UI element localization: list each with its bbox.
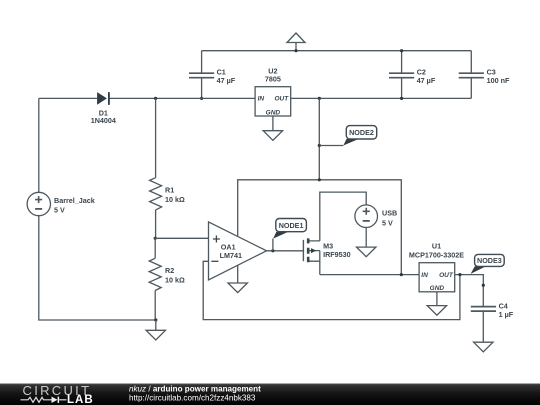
- wire op-amp minus feedback: [203, 261, 460, 319]
- wire U1 OUT to C4: [455, 275, 484, 307]
- node junction power on top rail: [294, 49, 297, 52]
- wire R2 bottom: [154, 291, 156, 321]
- svg-text:OA1: OA1: [221, 242, 236, 251]
- node junction R1 top: [154, 97, 157, 100]
- svg-text:NODE1: NODE1: [279, 221, 304, 230]
- transistor M3 IRF9530: [303, 238, 350, 262]
- node junction op-amp output: [271, 249, 274, 252]
- wire junction to op-amp plus input: [155, 237, 208, 239]
- svg-text:USB: USB: [382, 209, 397, 218]
- capacitor C3: [459, 51, 510, 99]
- node junction U1 in rail: [400, 273, 403, 276]
- svg-text:IN: IN: [258, 96, 265, 103]
- ground bottom left: [146, 320, 165, 340]
- wire main rail left: [39, 97, 255, 99]
- svg-text:5 V: 5 V: [382, 218, 393, 227]
- node junction R1/R2/op-amp: [154, 237, 157, 240]
- svg-text:IN: IN: [421, 272, 428, 279]
- power symbol VCC: [287, 33, 305, 51]
- voltage source USB: [355, 205, 397, 228]
- wire op-amp output to gate: [267, 250, 304, 252]
- svg-text:10 kΩ: 10 kΩ: [165, 276, 185, 285]
- svg-text:GND: GND: [266, 109, 281, 116]
- logo resistor-diode symbol: [21, 397, 67, 403]
- resistor R1: [150, 98, 185, 209]
- ground below USB: [357, 228, 376, 257]
- ground below C4: [474, 342, 493, 352]
- regulator U1 MCP1700-3302E: [409, 242, 464, 293]
- wire left vertical to source: [38, 98, 40, 192]
- resistor R2: [149, 238, 185, 290]
- capacitor C4: [471, 301, 514, 342]
- svg-text:5 V: 5 V: [54, 206, 65, 215]
- node tag NODE3: [471, 254, 505, 274]
- node junction NODE2: [318, 144, 321, 147]
- capacitor C1: [189, 51, 236, 99]
- ground below U1: [427, 292, 446, 315]
- wire U2 OUT rail: [291, 97, 472, 99]
- node tag NODE1: [273, 219, 306, 239]
- svg-text:Barrel_Jack: Barrel_Jack: [54, 196, 95, 205]
- node junction U2 out drop: [318, 97, 321, 100]
- svg-text:1 µF: 1 µF: [499, 310, 514, 319]
- wire U1 IN rail: [320, 274, 419, 276]
- svg-text:LM741: LM741: [220, 251, 242, 260]
- voltage source Barrel_Jack: [27, 192, 95, 215]
- diode D1: [91, 92, 116, 125]
- capacitor C2: [389, 51, 436, 99]
- svg-text:100 nF: 100 nF: [487, 76, 510, 85]
- node junction C2 top: [400, 49, 403, 52]
- wire barrel jack bottom to ground rail: [39, 216, 156, 320]
- wire top rail: [202, 50, 472, 52]
- wire R1 bottom to junction: [155, 210, 157, 238]
- svg-text:47 µF: 47 µF: [417, 76, 436, 85]
- svg-text:1N4004: 1N4004: [91, 116, 116, 125]
- svg-text:GND: GND: [430, 285, 445, 292]
- wire NODE2 stub: [319, 145, 343, 147]
- node junction rect rail / NODE2 drop: [318, 178, 321, 181]
- svg-text:NODE2: NODE2: [349, 128, 374, 137]
- wire NODE2 drop vertical: [318, 98, 320, 179]
- svg-text:OUT: OUT: [274, 96, 289, 103]
- svg-text:http://circuitlab.com/ch2fzz4n: http://circuitlab.com/ch2fzz4nbk383: [129, 393, 256, 402]
- footer bar: [0, 384, 540, 405]
- node junction bottom left ground: [154, 318, 157, 321]
- wire supply rect rail: [238, 180, 402, 275]
- ground below U2: [263, 116, 282, 140]
- node junction C2 bottom: [400, 97, 403, 100]
- svg-text:OUT: OUT: [439, 272, 454, 279]
- svg-text:R2: R2: [165, 266, 174, 275]
- svg-text:U1: U1: [432, 242, 441, 251]
- svg-text:IRF9530: IRF9530: [323, 250, 351, 259]
- svg-text:MCP1700-3302E: MCP1700-3302E: [409, 251, 464, 260]
- svg-text:10 kΩ: 10 kΩ: [165, 195, 185, 204]
- svg-text:nkuz / arduino power managemen: nkuz / arduino power management: [129, 384, 261, 393]
- wire M3 drain down to U1 rail: [319, 251, 321, 275]
- svg-text:7805: 7805: [265, 75, 281, 84]
- node tag NODE2: [343, 126, 376, 146]
- wire USB loop to M3 source: [320, 192, 366, 241]
- op-amp OA1 LM741: [209, 222, 267, 280]
- svg-text:NODE3: NODE3: [477, 256, 502, 265]
- svg-text:R1: R1: [165, 185, 174, 194]
- node junction NODE3 wire: [482, 284, 485, 287]
- node junction C1 bottom: [200, 97, 203, 100]
- svg-text:47 µF: 47 µF: [217, 76, 236, 85]
- svg-text:LAB: LAB: [67, 394, 94, 405]
- regulator U2 7805: [255, 66, 291, 116]
- node junction U1 out / feedback: [458, 273, 461, 276]
- wire NODE1 stub: [272, 239, 274, 251]
- ground below op-amp: [228, 265, 247, 292]
